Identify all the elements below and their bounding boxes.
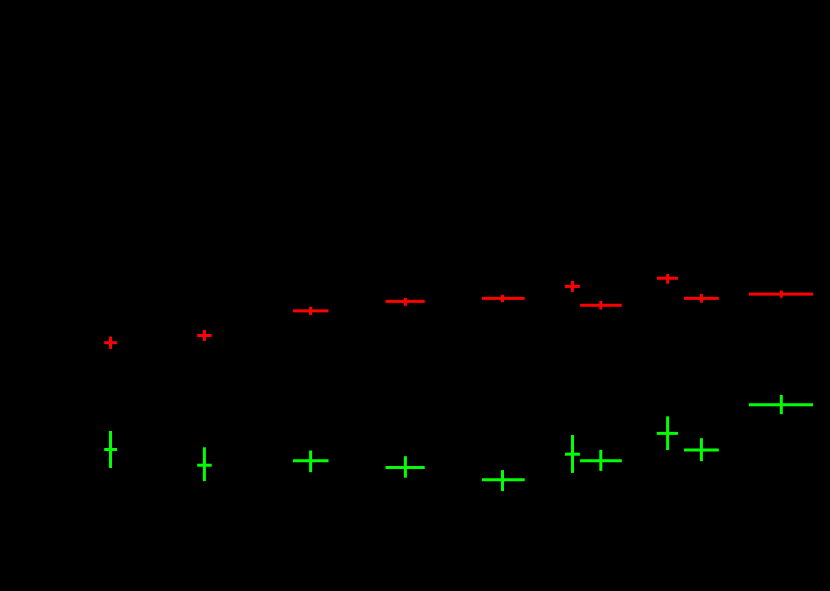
green point 1 — [104, 431, 117, 468]
green point 7 — [580, 450, 622, 471]
red point 6 — [565, 281, 580, 292]
green point 6 — [565, 435, 580, 473]
green point 3 — [293, 451, 329, 473]
green point 10 — [749, 395, 813, 414]
red point 1 — [104, 337, 117, 349]
red point 3 — [293, 307, 329, 315]
green point 9 — [684, 438, 719, 461]
green point 4 — [386, 456, 425, 478]
green point 8 — [657, 416, 678, 450]
red point 8 — [657, 274, 678, 284]
red point 5 — [482, 295, 525, 302]
red point 10 — [749, 291, 813, 298]
red point 9 — [684, 294, 719, 303]
red point 4 — [386, 298, 425, 306]
red series (xy error bars) — [104, 274, 813, 349]
red point 7 — [580, 301, 622, 310]
green point 5 — [482, 470, 525, 491]
green point 2 — [197, 447, 212, 481]
red point 2 — [197, 330, 212, 341]
green series (xy error bars) — [104, 395, 813, 491]
